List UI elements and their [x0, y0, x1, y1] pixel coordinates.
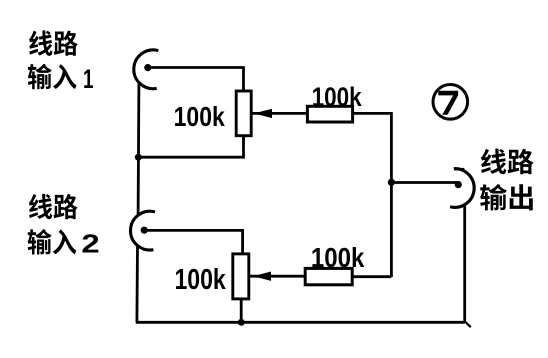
svg-text:1: 1: [83, 64, 94, 94]
svg-text:100k: 100k: [174, 263, 226, 295]
resistor R2 body: [305, 268, 352, 284]
RP1 wiper arrow: [254, 109, 272, 118]
RP2 wiper arrow: [253, 272, 271, 281]
jack J3 tip contact dot: [455, 181, 462, 188]
wire: RP2 wiper to R2: [249, 275, 305, 278]
jack J1 (line input 1) sleeve arc: [134, 50, 158, 89]
junction node: RP2 bottom / ground bus: [238, 319, 245, 326]
wire: left ground rail upper segment: [137, 84, 141, 216]
label: 线路 (output, line 1): [481, 149, 506, 175]
wire: R2 right to node column: [352, 275, 391, 278]
label: 输入 (input 1, line 2): [28, 64, 52, 89]
jack J2 tip contact dot: [141, 227, 148, 234]
jack J1 tip contact dot: [144, 64, 151, 71]
label: 输入 (input 2, line 2): [28, 229, 52, 254]
wire: output tap: [391, 181, 457, 184]
svg-text:2: 2: [81, 231, 99, 259]
wire: bottom-right corner overshoot tick: [465, 322, 471, 328]
wire: J1 tip to RP1 top: [148, 68, 244, 92]
svg-text:100k: 100k: [174, 101, 226, 132]
wire: J3 sleeve down to ground: [463, 204, 466, 322]
label: 输出 (output, line 2): [480, 184, 507, 210]
jack J2 (line input 2) sleeve arc: [131, 211, 155, 250]
jack J3 (line output) sleeve arc: [450, 169, 474, 208]
svg-text:100k: 100k: [312, 82, 362, 112]
resistor R1 body: [307, 106, 352, 122]
potentiometer RP1 body: [236, 91, 251, 136]
svg-text:100k: 100k: [311, 242, 365, 273]
junction node: output column / tap: [388, 179, 395, 186]
wire: R1 right to node column: [353, 113, 392, 277]
label: 线路 (input 2, line 1): [29, 194, 52, 219]
wire: RP1 bottom to left rail: [138, 136, 243, 158]
figure number circle: [433, 85, 468, 120]
wire: RP1 wiper to R1: [252, 112, 308, 115]
label: 线路 (input 1, line 1): [29, 30, 52, 55]
potentiometer RP2 body: [233, 254, 249, 299]
wire: J2 tip to RP2 top: [144, 230, 242, 254]
wire: left ground rail lower segment: [135, 246, 138, 323]
jack J3 arc top tail: [455, 168, 465, 171]
junction node: RP1 bottom / left rail: [135, 154, 142, 161]
figure number 7 glyph: [438, 91, 458, 115]
wire: bottom ground bus: [136, 321, 465, 324]
wire: RP2 bottom to ground bus: [240, 299, 243, 322]
